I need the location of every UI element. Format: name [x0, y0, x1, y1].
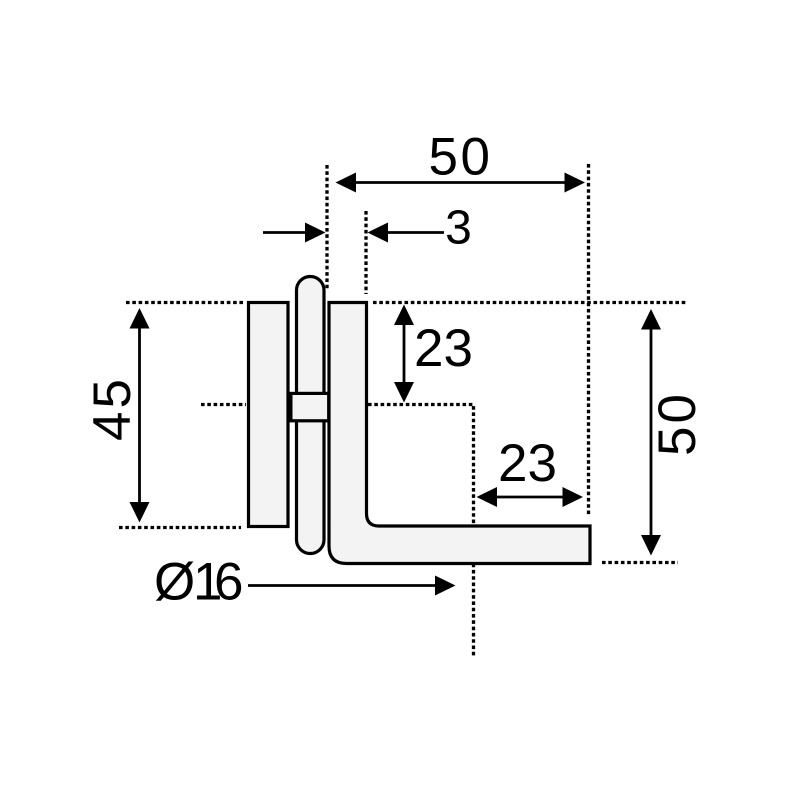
svg-text:50: 50	[648, 391, 707, 456]
svg-text:50: 50	[429, 128, 493, 187]
svg-text:3: 3	[445, 202, 474, 255]
svg-text:45: 45	[83, 376, 142, 441]
svg-text:Ø16: Ø16	[154, 553, 243, 612]
svg-text:23: 23	[498, 434, 557, 493]
svg-text:23: 23	[414, 319, 473, 378]
